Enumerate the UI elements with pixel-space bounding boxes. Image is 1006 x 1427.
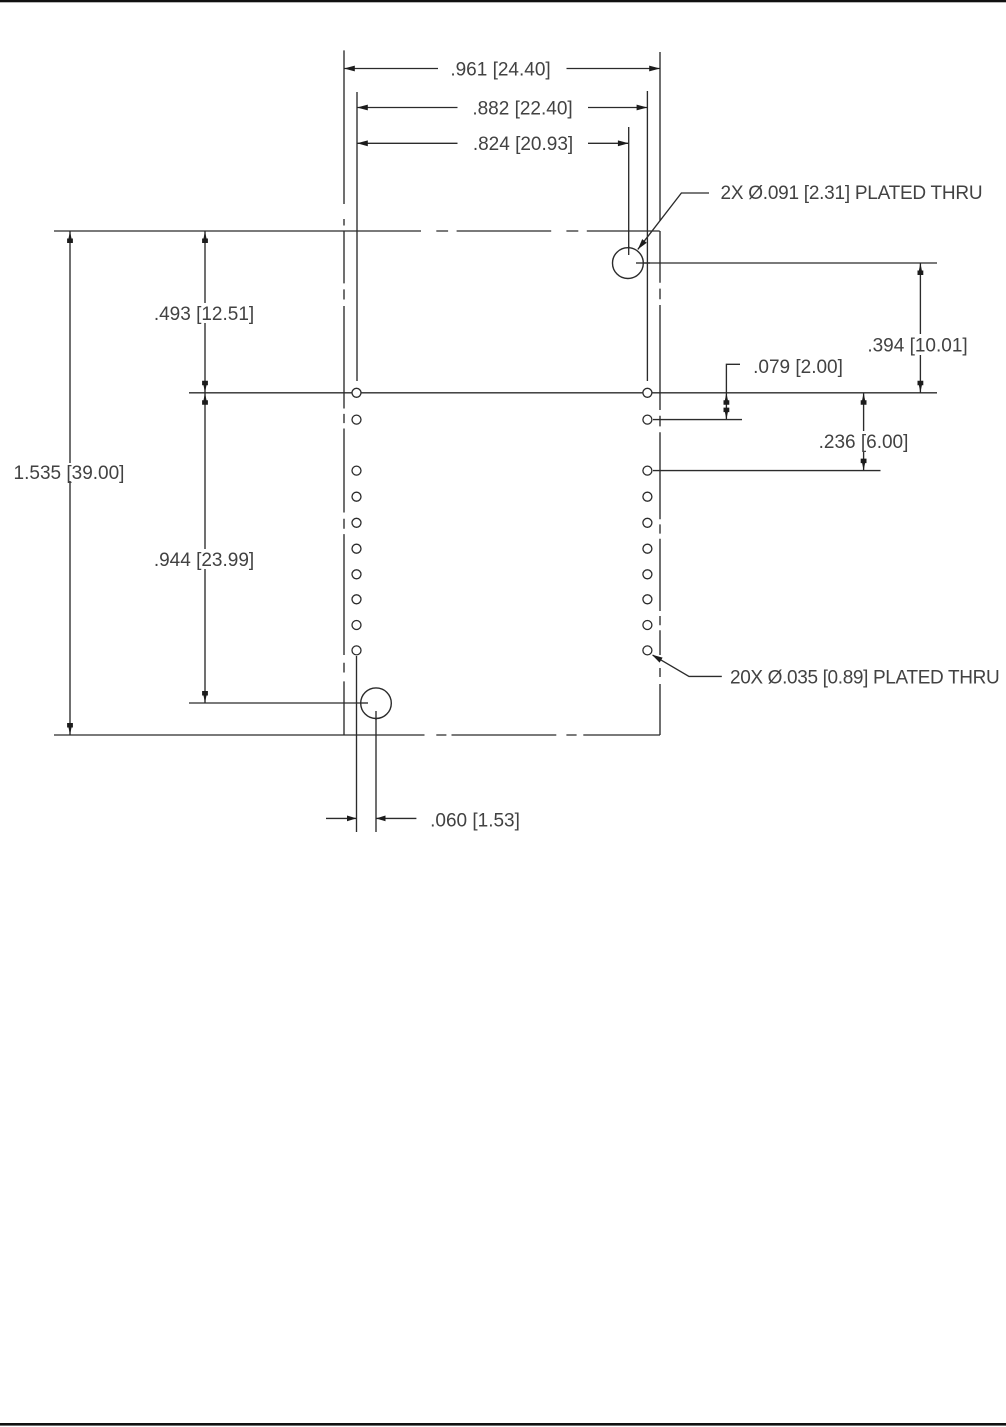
svg-text:.060 [1.53]: .060 [1.53] — [430, 810, 520, 831]
svg-text:1.535 [39.00]: 1.535 [39.00] — [14, 463, 125, 484]
arrow .824 left — [357, 140, 368, 146]
dim leader .079 — [726, 364, 740, 419]
line ticks drawn inside the big plated holes — [360, 246, 650, 720]
extension line left hole column (dims .882 .824) — [356, 92, 358, 381]
tick big hole bottom: .060 extension start inside — [375, 711, 377, 720]
svg-text:.961 [24.40]: .961 [24.40] — [450, 59, 550, 80]
hole R8 — [643, 595, 652, 604]
svg-text:2X Ø.091 [2.31] PLATED THRU: 2X Ø.091 [2.31] PLATED THRU — [721, 183, 983, 204]
hole R7 — [643, 570, 652, 579]
board outline left edge (chain line) — [343, 231, 345, 735]
arrow .493 down — [202, 381, 208, 393]
extension line big hole bottom (dim .060) — [375, 711, 377, 832]
extension line left board edge (dim .961) — [343, 50, 345, 225]
arrow .961 left — [344, 66, 355, 72]
svg-text:.236 [6.00]: .236 [6.00] — [819, 432, 909, 453]
dim line .493 — [204, 231, 206, 393]
pin holes 20X — [352, 248, 652, 719]
dim line .394 — [919, 263, 921, 393]
dim line .236 — [863, 393, 865, 471]
board outline right edge (chain line) — [659, 231, 661, 735]
arrow .493 up — [202, 231, 208, 243]
hole L3 — [352, 466, 361, 475]
hole R3 — [643, 466, 652, 475]
svg-text:.079 [2.00]: .079 [2.00] — [753, 357, 843, 378]
big plated hole top 2X — [613, 248, 644, 279]
hole L5 — [352, 518, 361, 527]
arrow leader 20X — [652, 655, 663, 663]
leader line 2X plated thru — [638, 193, 709, 249]
extension line right hole column (dim .882) — [646, 91, 648, 381]
arrow .394 up — [918, 263, 924, 275]
row line big hole top — [636, 262, 937, 264]
hole L7 — [352, 570, 361, 579]
board outline top edge (phantom) with dim 1.535 top extension line — [54, 230, 660, 232]
dimension texts — [14, 59, 1000, 831]
board outline bottom edge (phantom) with dim 1.535 bottom extension line — [54, 734, 660, 736]
row line pin row 3 — [653, 470, 881, 472]
row line pin row 2 — [653, 419, 742, 421]
tick big hole top: row line start inside — [636, 262, 650, 264]
svg-text:.944 [23.99]: .944 [23.99] — [154, 550, 254, 571]
arrow .824 right — [618, 140, 629, 146]
hole R2 — [643, 415, 652, 424]
arrow .236 up — [861, 393, 867, 405]
extension line right board edge (dim .961) — [659, 52, 661, 221]
arrow .236 down — [861, 459, 867, 471]
tick big hole bottom: row line end inside — [360, 702, 368, 704]
svg-text:.394 [10.01]: .394 [10.01] — [867, 335, 967, 356]
hole L2 — [352, 415, 361, 424]
arrow .079 up — [724, 393, 730, 405]
extension line hole column bottom (dim .060) — [356, 656, 358, 832]
dim line 1.535 — [69, 231, 71, 735]
arrow .079 down — [724, 408, 730, 420]
hole R1 — [643, 388, 652, 397]
hole L9 — [352, 621, 361, 630]
hole L1 — [352, 388, 361, 397]
arrow .961 right — [649, 66, 660, 72]
arrow 1.535 up — [67, 231, 73, 243]
svg-text:.493 [12.51]: .493 [12.51] — [154, 304, 254, 325]
svg-text:20X Ø.035 [0.89] PLATED THRU: 20X Ø.035 [0.89] PLATED THRU — [730, 667, 999, 688]
arrow .394 down — [918, 381, 924, 393]
hole R4 — [643, 492, 652, 501]
hole R9 — [643, 621, 652, 630]
arrow leader 2X — [638, 239, 647, 249]
arrow .882 right — [637, 105, 648, 111]
arrow .944 down — [202, 691, 208, 703]
row line pin row 1 — [189, 392, 937, 394]
sheet bottom border — [0, 1423, 1006, 1426]
arrow .944 up — [202, 393, 208, 405]
dim line .824 — [357, 142, 629, 144]
sheet top border — [0, 0, 1006, 2]
arrow 1.535 down — [67, 723, 73, 735]
hole L6 — [352, 544, 361, 553]
row line big hole bottom — [189, 702, 368, 704]
hole L8 — [352, 595, 361, 604]
big plated hole bottom 2X — [361, 688, 392, 719]
arrows — [67, 66, 923, 822]
arrow .882 left — [357, 105, 368, 111]
hole R10 — [643, 646, 652, 655]
svg-text:.882 [22.40]: .882 [22.40] — [472, 98, 572, 119]
arrow .060 left — [376, 816, 386, 822]
dim line .944 — [204, 393, 206, 703]
dim line .961 — [344, 68, 660, 70]
leader line 20X plated thru — [653, 655, 722, 676]
svg-text:.824 [20.93]: .824 [20.93] — [473, 134, 573, 155]
hole L10 — [352, 646, 361, 655]
tick big hole top: .824 extension end inside — [628, 246, 630, 255]
hole R6 — [643, 544, 652, 553]
hole L4 — [352, 492, 361, 501]
arrow .060 right — [347, 816, 357, 822]
hole R5 — [643, 518, 652, 527]
dim line .060 — [326, 817, 416, 819]
dim line .882 — [357, 107, 647, 109]
extension line big hole top (dim .824) — [628, 127, 630, 255]
